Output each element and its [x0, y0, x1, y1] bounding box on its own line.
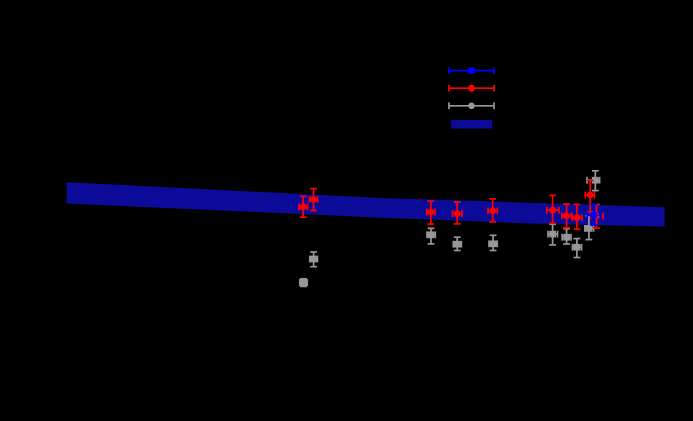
grey data point 8: [573, 239, 582, 258]
fit band: [67, 182, 665, 226]
red data point 2: [310, 189, 318, 211]
legend entry: blue measurement: [449, 67, 494, 74]
red data point 1: [299, 196, 308, 217]
legend entry: red measurement: [449, 85, 494, 92]
grey data point 1: [300, 279, 307, 287]
red data point 8: [572, 204, 581, 229]
red data point 7: [562, 204, 572, 228]
grey data point 9: [585, 216, 594, 240]
red data point 5: [488, 199, 497, 222]
grey data point 4: [453, 237, 461, 250]
grey data point 7: [562, 229, 571, 244]
grey data point 6: [548, 224, 558, 245]
red data point 6: [547, 195, 559, 223]
legend entry: grey measurement: [449, 102, 494, 109]
red data point 9: [585, 181, 594, 212]
red data point 4: [453, 202, 462, 224]
legend entry: fit band swatch: [451, 120, 492, 129]
red data point 3: [427, 201, 435, 224]
blue data point: [587, 204, 601, 225]
grey data point 5: [489, 235, 497, 250]
grey data point 10: [587, 171, 600, 191]
red data point 10: [591, 205, 603, 229]
grey data point 2: [310, 252, 318, 267]
grey data point 3: [427, 228, 435, 244]
